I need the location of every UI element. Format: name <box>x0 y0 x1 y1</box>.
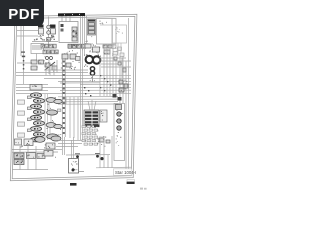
control unit U1 <box>59 17 78 43</box>
svg-text:PDF: PDF <box>8 6 40 23</box>
svg-text:Star 1004-I: Star 1004-I <box>115 170 136 175</box>
center drop wires <box>63 137 111 159</box>
fuse block F1 <box>38 25 44 40</box>
right small component cluster <box>112 43 124 56</box>
page number footer <box>70 183 77 186</box>
bus mounted box <box>30 85 42 91</box>
wire harness left vertical <box>21 26 37 84</box>
right component chain P1 <box>119 80 128 92</box>
right light box H1 <box>100 25 127 43</box>
terminal ticks T1 <box>31 44 44 54</box>
bus wires upper band <box>58 97 118 140</box>
terminal strip TS1 <box>84 100 99 127</box>
bottom right wires <box>96 136 132 168</box>
sensor group G1 <box>103 45 112 54</box>
relay box U3 <box>97 19 117 45</box>
instrument cluster text block <box>82 36 100 53</box>
tall right box V1 <box>114 104 125 161</box>
bottom middle group Y1 <box>44 136 61 158</box>
aux connector column <box>18 100 25 137</box>
gauge M1 <box>84 54 101 66</box>
switch cluster S1 <box>44 56 57 74</box>
bottom left dark pair <box>14 141 45 165</box>
right stair wires <box>101 58 131 96</box>
vertical ladder connector <box>62 58 65 137</box>
relay cluster K1 <box>17 60 44 70</box>
aux box B1 <box>100 110 107 122</box>
oval component chain OC1 <box>46 97 62 139</box>
label row battery feed <box>32 39 58 42</box>
grid junction dots <box>100 75 111 91</box>
resistor chain R1 <box>90 67 95 82</box>
lower text cluster <box>82 125 99 146</box>
wire stub rows top-left <box>17 31 38 37</box>
bottom left boxes X1 <box>12 137 62 153</box>
switch pair S2 S3 <box>61 54 80 70</box>
connector CN1 row A <box>41 44 56 48</box>
right mini marks <box>114 57 126 72</box>
junction box U2 <box>88 19 96 35</box>
bottom left wires <box>12 146 48 170</box>
connector CN2 row <box>64 44 85 54</box>
title block Star 1004-I <box>114 169 137 176</box>
node cluster W1 <box>113 94 122 101</box>
bottom connector box Z1 <box>69 159 85 174</box>
title strip on top border <box>58 13 85 16</box>
lamp column L1 <box>47 17 51 47</box>
bottom right cluster AA1 <box>97 136 110 147</box>
PDF badge <box>0 0 44 26</box>
right wire drops <box>81 16 129 170</box>
footer mark right <box>127 180 135 184</box>
footer signature <box>140 188 147 190</box>
relay stack K2-K9 <box>28 93 48 142</box>
bus wires mid <box>16 70 131 94</box>
tee drop marks <box>75 153 104 160</box>
connector CN1 row B <box>43 50 58 54</box>
fuse block F2 <box>50 25 56 39</box>
